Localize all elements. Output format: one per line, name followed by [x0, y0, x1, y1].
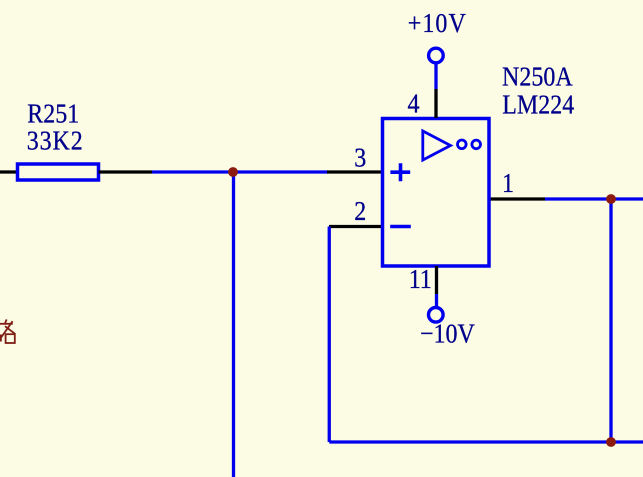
- svg-text:N250A: N250A: [502, 61, 573, 92]
- wire: junction node to op-amp pin 3: [233, 170, 328, 173]
- op-amp U N250A pin 11 (black stub): [435, 266, 438, 294]
- op-amp U N250A pin 3 (black stub): [327, 170, 383, 173]
- op-amp U N250A body: [383, 119, 490, 267]
- op-amp inverting input marker -: [390, 225, 411, 229]
- svg-text:−10V: −10V: [420, 318, 475, 349]
- svg-text:33K2: 33K2: [27, 125, 84, 156]
- svg-text:3: 3: [354, 142, 366, 173]
- op-amp U N250A pin 4 (black stub): [434, 89, 437, 118]
- wire: feedback vertical right leg: [609, 199, 612, 442]
- svg-text:LM224: LM224: [502, 89, 574, 120]
- svg-text:2: 2: [354, 195, 366, 226]
- wire: +10V terminal to pin 4: [434, 63, 437, 90]
- wire: feedback bottom horizontal: [329, 440, 643, 443]
- svg-text:11: 11: [409, 263, 432, 294]
- -10V power terminal circle: [429, 308, 444, 323]
- op-amp U N250A pin 2 (black stub): [329, 225, 383, 228]
- svg-text:+10V: +10V: [408, 7, 467, 38]
- junction dot at input node: [228, 167, 238, 177]
- wire: left lead into resistor R251: [0, 170, 18, 173]
- op-amp non-inverting input marker +: [390, 163, 410, 181]
- wire: resistor to junction node: [152, 170, 234, 173]
- text fragment: clipped Chinese character 路 at left edge: [0, 319, 15, 343]
- resistor R251 body: [18, 164, 99, 180]
- wire: pin 11 to -10V terminal: [435, 294, 438, 308]
- junction dot on output wire: [606, 194, 616, 204]
- resistor R251 right pin (black stub): [99, 170, 153, 173]
- op-amp symbol circle 1: [458, 140, 467, 149]
- wire: feedback vertical left leg from pin 2: [328, 227, 331, 443]
- op-amp U N250A pin 1 output (black stub): [489, 197, 545, 200]
- +10V power terminal circle: [429, 48, 444, 63]
- svg-text:4: 4: [408, 88, 420, 119]
- wire: output to right edge: [545, 197, 643, 200]
- svg-text:1: 1: [502, 167, 514, 198]
- wire: vertical from input node down off-page: [232, 172, 235, 477]
- op-amp symbol triangle: [423, 131, 451, 160]
- junction dot on feedback bottom wire: [606, 437, 616, 447]
- op-amp symbol circle 2: [472, 140, 481, 149]
